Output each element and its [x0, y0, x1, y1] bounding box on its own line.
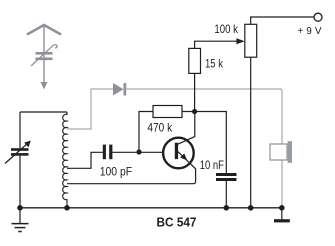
node collector (junction dot) [192, 109, 197, 114]
wire gray: coil tap to diode [67, 89, 113, 129]
collector lead [178, 112, 195, 145]
emitter arrowhead [180, 153, 187, 160]
junction dot rail/10nF [224, 205, 230, 211]
potentiometer P1 100k [245, 24, 257, 57]
wiper arrow into potentiometer [236, 38, 244, 44]
wire: pot top to +9V terminal [251, 17, 314, 24]
variable capacitor C1 [11, 148, 29, 156]
svg-text:470 k: 470 k [147, 120, 173, 134]
wire: left vertical above variable capacitor [19, 112, 21, 148]
svg-text:10 nF: 10 nF [200, 158, 224, 172]
emitter lead [67, 152, 196, 184]
variable capacitor arrow [5, 144, 27, 163]
svg-text:BC 547: BC 547 [157, 215, 197, 229]
svg-text:15 k: 15 k [205, 57, 224, 71]
trimmer capacitor of antenna [36, 52, 53, 60]
wire: collector node up to 15k [194, 73, 196, 111]
wire: 470k right to collector node and 10nF [182, 112, 226, 174]
svg-text:100 k: 100 k [214, 22, 238, 36]
junction dot rail/left [17, 205, 23, 211]
inductor L1 [63, 112, 67, 208]
antenna ANT (gray) [27, 25, 61, 83]
capacitor C2 100 pF [103, 145, 113, 160]
wire: pot bottom down to rail [250, 57, 252, 208]
capacitor C3 10 nF [216, 173, 237, 181]
terminal +9V (open circle) [314, 13, 322, 21]
wire: top of tank [20, 111, 67, 113]
transistor base bar [175, 143, 178, 159]
wire: 100pF to base [112, 151, 163, 153]
diode D1 (gray) [113, 83, 126, 96]
wire: base node up to 470k [139, 112, 153, 153]
ground (earth) left [12, 208, 29, 232]
wire: coil tap to 100pF [67, 152, 103, 168]
ground (bar) right [281, 208, 283, 219]
wire: left vertical below variable capacitor [19, 156, 21, 208]
svg-text:+ 9 V: + 9 V [297, 26, 322, 37]
trimmer adjust stroke with curl [31, 45, 57, 66]
wire gray: diode to earphone [126, 89, 282, 144]
wire gray: earphone to ground rail [281, 160, 283, 207]
junction dot rail/earphone [279, 205, 285, 211]
wire: 15k top to wiper [195, 41, 237, 48]
junction dot rail/coil [64, 205, 70, 211]
ground rail [20, 207, 282, 209]
earphone LS1 [270, 144, 287, 160]
resistor R2 470k [153, 106, 182, 118]
junction dot rail/pot [248, 205, 254, 211]
resistor R1 15k [189, 48, 201, 73]
node base (junction dot) [136, 149, 141, 154]
wire: 10nF to rail [225, 181, 227, 208]
svg-text:100 pF: 100 pF [100, 166, 133, 178]
transistor T1 body [163, 138, 194, 169]
antenna down arrow [41, 82, 48, 90]
